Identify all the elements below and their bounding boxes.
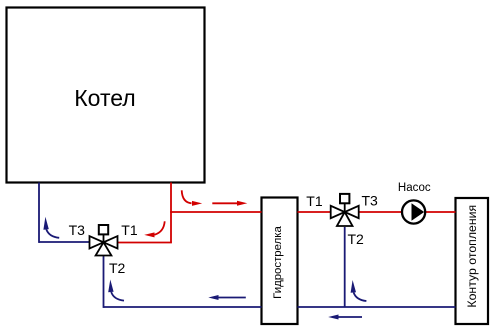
three-way valve right (mixing valve) [331, 194, 359, 226]
svg-text:T3: T3 [362, 193, 379, 209]
wire blue bottom left to separator [104, 306, 262, 308]
boiler Котел box [7, 8, 205, 183]
wire red supply boiler to separator [170, 211, 261, 213]
arrow red curved into left valve T1 [155, 221, 165, 234]
svg-text:Котел: Котел [74, 85, 135, 111]
wire red supply down from boiler [170, 183, 172, 243]
pump Насос circle [402, 200, 425, 223]
arrow blue straight bottom right line [338, 316, 362, 318]
arrow blue curved up near T3 [46, 229, 59, 238]
svg-text:Гидрострелка: Гидрострелка [272, 226, 284, 299]
svg-text:T2: T2 [348, 231, 365, 247]
svg-text:Контур отопления: Контур отопления [465, 205, 479, 308]
wire red pump to heating circuit [426, 211, 456, 213]
wire red separator to right valve T1 [298, 211, 332, 213]
wire blue right valve T2 down [344, 227, 346, 307]
arrow blue curved up right valve T2 pipe [354, 292, 367, 301]
wire blue left valve T2 down [103, 256, 105, 308]
wire blue bottom separator to heating circuit [298, 306, 456, 308]
svg-text:Насос: Насос [398, 182, 431, 194]
wire blue return down from boiler [38, 183, 40, 243]
arrow blue curved up left valve T2 pipe [111, 292, 124, 301]
svg-text:T2: T2 [109, 260, 126, 276]
svg-text:T1: T1 [306, 193, 323, 209]
arrow red straight on supply line [212, 202, 238, 204]
svg-text:T1: T1 [121, 222, 138, 238]
wire red right valve T3 to pump [359, 211, 402, 213]
wire red branch to left valve port T1 [118, 242, 172, 244]
arrow blue straight bottom left line [218, 297, 246, 299]
svg-text:T3: T3 [69, 222, 86, 238]
heating circuit Контур отопления box [456, 198, 489, 324]
pump rotor triangle [412, 203, 425, 221]
arrow red curved out of boiler [182, 190, 192, 203]
wire blue return to left valve port T3 [39, 241, 90, 243]
three-way valve left (mixing valve) [90, 225, 118, 256]
hydraulic separator Гидрострелка box [262, 198, 298, 325]
